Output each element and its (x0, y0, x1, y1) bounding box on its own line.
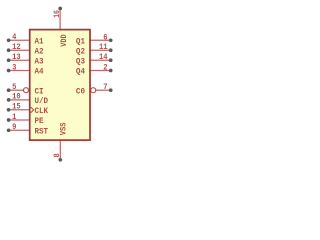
pin 15 wire (CLK) (9, 109, 31, 111)
svg-text:Q2: Q2 (76, 46, 85, 56)
svg-text:A4: A4 (35, 67, 44, 77)
IC body U1 (CD4029-style up/down counter symbol) (30, 30, 90, 141)
svg-text:12: 12 (12, 43, 21, 52)
svg-text:15: 15 (12, 103, 21, 112)
pin 12 wire (A2) (9, 49, 31, 51)
pin 3 wire (A4) (9, 70, 31, 72)
svg-text:CLK: CLK (35, 106, 49, 116)
svg-text:9: 9 (12, 123, 16, 132)
svg-text:16: 16 (53, 10, 62, 18)
svg-text:13: 13 (12, 53, 21, 62)
pin 4 connection dot (7, 38, 11, 42)
pin 1 connection dot (7, 118, 11, 122)
svg-text:C0: C0 (76, 86, 85, 96)
svg-text:11: 11 (99, 43, 108, 52)
svg-text:A2: A2 (35, 46, 44, 56)
svg-text:6: 6 (103, 33, 107, 42)
pin 15 connection dot (7, 108, 11, 112)
pin 10 connection dot (7, 98, 11, 102)
svg-text:Q4: Q4 (76, 67, 85, 77)
svg-text:A1: A1 (35, 37, 44, 47)
svg-text:3: 3 (12, 63, 16, 72)
svg-text:7: 7 (103, 83, 107, 92)
svg-text:Q1: Q1 (76, 37, 85, 47)
pin 14 connection dot (109, 58, 113, 62)
pin 16 connection dot (58, 7, 62, 11)
pin 13 connection dot (7, 58, 11, 62)
pin 11 connection dot (109, 48, 113, 52)
pin 10 wire (U/D) (9, 99, 31, 101)
clock symbol on CLK (31, 107, 34, 113)
svg-text:VDD: VDD (59, 34, 69, 47)
svg-text:1: 1 (12, 113, 16, 122)
pin 5 wire (CI) (9, 89, 24, 91)
pin 12 connection dot (7, 48, 11, 52)
pin 6 connection dot (109, 38, 113, 42)
svg-text:2: 2 (103, 64, 107, 73)
pin 11 wire (Q2) (89, 49, 111, 51)
pin 1 wire (PE) (9, 119, 31, 121)
svg-text:8: 8 (53, 153, 62, 157)
svg-text:5: 5 (12, 83, 16, 92)
pin 9 wire (RST) (9, 129, 31, 131)
svg-text:A3: A3 (35, 56, 44, 66)
pin 8 connection dot (58, 158, 62, 162)
inversion bubble on CI (24, 88, 29, 93)
pin 8 wire (VSS, bottom) (59, 139, 61, 158)
svg-text:14: 14 (99, 53, 108, 62)
pin 7 wire (C0) (96, 89, 111, 91)
pin 4 wire (A1) (9, 39, 31, 41)
pin 5 connection dot (7, 88, 11, 92)
pin 3 connection dot (7, 69, 11, 73)
svg-text:U/D: U/D (35, 96, 49, 106)
pin 13 wire (A3) (9, 59, 31, 61)
svg-text:CI: CI (35, 86, 44, 96)
svg-text:Q3: Q3 (76, 56, 85, 66)
svg-text:4: 4 (12, 33, 16, 42)
svg-text:PE: PE (35, 116, 44, 126)
pin 2 connection dot (109, 69, 113, 73)
inversion bubble on C0 (91, 88, 96, 93)
svg-text:10: 10 (12, 93, 21, 102)
pin 9 connection dot (7, 128, 11, 132)
pin 7 connection dot (109, 88, 113, 92)
pin 2 wire (Q4) (89, 70, 111, 72)
pin 16 wire (VDD, top) (59, 10, 61, 30)
pin 6 wire (Q1) (89, 39, 111, 41)
pin 14 wire (Q3) (89, 59, 111, 61)
svg-text:VSS: VSS (59, 123, 69, 136)
svg-text:RST: RST (35, 127, 49, 137)
